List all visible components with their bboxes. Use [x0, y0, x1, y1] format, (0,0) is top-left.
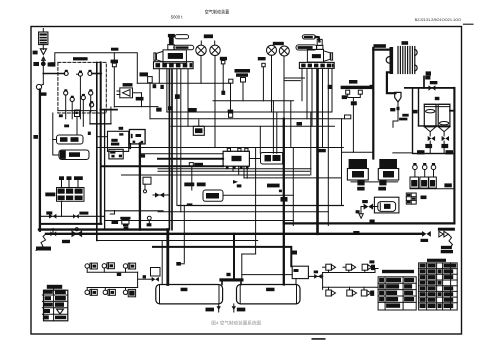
brake cylinder row2 unit2 [103, 289, 115, 295]
isolating valve D2 on main [62, 228, 82, 244]
label on trunk drop [281, 197, 288, 202]
wire y178.2 from BV [246, 169, 248, 178]
distributing valve row B unit1 [326, 287, 336, 296]
wire trunk to radiator (heavy) [373, 48, 389, 50]
drain zigzag to bleed [36, 234, 51, 251]
instrument box I3 [429, 177, 437, 188]
CP1 downcomer 2 [166, 69, 168, 112]
capsule feed drop x276.8 [276, 112, 278, 153]
CP2 downcomer 1 [301, 69, 303, 101]
labels under dryer cabinet [417, 150, 425, 154]
collector wire y153.8 [140, 153, 223, 155]
wire y168.7 [158, 168, 311, 170]
label above fan gauges [201, 34, 214, 44]
drop wire x191.75 [191, 166, 193, 190]
collector wire y126.25 [171, 125, 335, 127]
drain tag on right pipe [424, 71, 431, 88]
CP2 downcomer 6 [331, 69, 333, 112]
distributing valve row B unit2 [347, 287, 357, 296]
label tag on left pipe [33, 135, 38, 139]
cock on top bus left drop [50, 62, 55, 66]
pressure switch right of CP1 [220, 57, 227, 95]
junction box on y175 [143, 177, 151, 184]
stacks foot wire [351, 181, 398, 183]
equalizing capsule right of BV [261, 153, 285, 165]
dryer tower 2 [438, 104, 450, 153]
unloader valve assembly with horn [117, 83, 144, 107]
distributing valve row B unit3 [361, 287, 374, 296]
dryer tower 1 [424, 104, 436, 153]
gauge cock P1 [64, 70, 68, 76]
terminal table left [57, 188, 85, 202]
distributing valve row A unit3 [362, 260, 375, 270]
downcomer tag d [168, 106, 171, 110]
main reservoir R2 [237, 285, 301, 304]
gauge cock P6 [81, 94, 85, 126]
row1 drops [87, 268, 125, 272]
main reservoir R1 [156, 285, 223, 304]
small tag on outlet wire [279, 190, 282, 193]
tag left of bracket [226, 273, 230, 276]
relay valve box above tank2 [292, 266, 308, 284]
vent nozzle [356, 207, 375, 223]
radiator outlet elbow [387, 72, 396, 93]
bowtie valve on y216.3 left [46, 211, 56, 218]
end valve right on main [421, 231, 431, 242]
CP1 downcomer 5 [187, 69, 189, 126]
fan gauge FG4 [279, 46, 289, 119]
gauge trio G1 [413, 163, 418, 177]
brake cylinder row1 unit2 [102, 263, 114, 269]
bowtie valve on y216.3 right [73, 212, 88, 219]
trunk pipe B [100, 62, 102, 224]
gauge cock P4 [64, 89, 68, 119]
oil separator funnel [390, 92, 408, 127]
compressor CP2 [296, 35, 334, 69]
stack feed wire [342, 151, 374, 153]
mini terminal table [406, 193, 416, 204]
svg-text:5000 t: 5000 t [171, 15, 183, 20]
data table left [378, 270, 416, 310]
wire cabinet bottom extension [393, 152, 412, 154]
svg-text:BZJ2131.2/5O1OO21.1OO: BZJ2131.2/5O1OO21.1OO [415, 18, 462, 22]
wire y240.5 [97, 240, 258, 242]
drawing frame border [31, 27, 462, 335]
fan gauge FG1 [196, 45, 206, 83]
row1 manifold wire [87, 271, 137, 273]
brake valve block BV [223, 148, 249, 169]
governor between compressors [235, 69, 251, 101]
heavy branch y246.9 [153, 247, 291, 266]
gauge cock P5 [70, 96, 74, 119]
pressure switch hanging at mid bus [111, 53, 118, 107]
wire to mufflers [53, 113, 59, 155]
legend table [42, 285, 67, 321]
label above outlet wire [267, 184, 280, 188]
pressure switch left of CP2 [258, 57, 266, 101]
muffler capsule 1 [57, 135, 84, 144]
instrument box I2 [420, 177, 429, 188]
panel inlet wire left [43, 73, 64, 75]
downcomer tag b [160, 85, 163, 89]
mid vertical x343 feeder [341, 119, 343, 205]
label above FG3/FG4 [273, 42, 284, 45]
downcomer tag c [175, 94, 180, 99]
right trunk pipe (heavy) [372, 48, 374, 159]
CP2 downcomer 5 [327, 69, 329, 225]
bowtie after relay box [308, 274, 322, 279]
row feed riser [322, 273, 324, 290]
brake cylinder row2 unit3 [123, 289, 135, 296]
dryer internal pipe [413, 88, 449, 126]
flow arrow [233, 180, 238, 184]
MB distributor box [108, 127, 129, 159]
CP1 downcomer 4 [180, 69, 182, 212]
sensor table drop wire [61, 201, 63, 216]
brake cylinder row1 unit3 [123, 263, 135, 269]
solenoid stack EPB [347, 159, 368, 191]
label left of table [45, 193, 55, 197]
CP1 discharge trunk 2 (heavy) [171, 69, 173, 229]
governor assembly above heavy lines [105, 110, 163, 230]
feed cock wire y216.3 [40, 215, 105, 217]
HB box [129, 130, 145, 158]
mid vertical x290.75 [290, 101, 292, 148]
wire into MB box [97, 136, 108, 138]
gauge trio G2 [422, 163, 427, 177]
collector wire y112 [167, 111, 332, 113]
angle cock D1 on main [50, 229, 56, 237]
control reservoir cylinder [203, 190, 223, 201]
label under flow arrow [237, 184, 242, 187]
air dryer cabinet [413, 88, 455, 154]
tag box on y166 pipe [189, 163, 203, 167]
gauge cock P3 [88, 70, 92, 76]
downcomer tag e [328, 85, 332, 89]
sensor stems [62, 180, 79, 188]
label on right trunk top [374, 44, 386, 48]
governor branch (heavy) [100, 109, 117, 111]
small box at row end [151, 268, 161, 277]
row2 risers [87, 288, 125, 291]
heavy brake pipe into BV [158, 158, 223, 160]
label at branch corner [292, 251, 298, 255]
tick on right trunk [370, 85, 373, 88]
auxiliary reservoir box lower right [374, 197, 399, 213]
heavy supply drop to tank bracket [233, 234, 235, 279]
distribution wire y220.5 [105, 220, 294, 222]
wire y175 [122, 174, 310, 176]
main left supply pipe (heavy) [39, 90, 41, 231]
downcomer tag a [153, 84, 157, 88]
fan gauge FG3 [267, 45, 277, 112]
tank mounting bracket [219, 278, 243, 284]
CP1 downcomer 1 [158, 69, 160, 83]
relay box inlet wire [242, 274, 292, 276]
relay component at x150 [140, 72, 153, 118]
instrument box I1 [410, 177, 419, 188]
control unit box (center) [189, 108, 205, 135]
dashed gauge panel box 1-7 [58, 62, 106, 113]
hose coupling right [438, 228, 455, 250]
heavy feed pipe y166.2 [101, 165, 223, 167]
radiator coil [386, 41, 417, 74]
bundle stub b [284, 80, 300, 82]
fan gauge FG2 [210, 45, 220, 147]
bundle stub a [284, 77, 305, 79]
distributing valve row A unit2 [343, 264, 356, 270]
panel bottom wire [58, 110, 97, 112]
top bus wire [55, 53, 138, 83]
tower top manifold [424, 104, 454, 110]
gauge cock P8 [90, 101, 94, 107]
capsule feed drop x260.3 [259, 126, 261, 153]
muffler capsule 2 [59, 150, 89, 160]
air filter F1 [39, 29, 48, 45]
node box at end of y118.75 [345, 115, 351, 119]
label on y126 wire [297, 122, 303, 126]
CP2 discharge trunk (heavy) [316, 69, 319, 234]
bowtie valve on dryer feed [429, 81, 438, 91]
reservoir outlet wire y195.3 [223, 194, 293, 196]
header wire y83 [137, 82, 230, 84]
unloader outlet wire [114, 106, 158, 108]
gauge cock P7 [89, 89, 93, 112]
trunk pipe A (double) [96, 62, 98, 240]
solenoid stack P4B [378, 159, 398, 191]
row B collector wire [323, 286, 379, 288]
wire y171.3 [158, 170, 310, 172]
brake cylinder row1 unit1 [85, 263, 97, 269]
cutout cock bowtie at left [153, 193, 169, 198]
drain valve under R2 [232, 304, 246, 312]
gauge row: label, cock G1, label [33, 59, 53, 85]
label above feed bowtie [314, 271, 318, 274]
drain valve under R1 [206, 304, 221, 312]
row2 manifold wire [87, 287, 137, 289]
heavy trunk drop to tank2 [283, 119, 285, 285]
heavy brake pipe upper (y223.4) [284, 222, 455, 224]
labels above brake cylinder [184, 183, 194, 187]
distribution wire y211.75 [158, 211, 328, 213]
BV to capsule wire [249, 158, 260, 160]
BV pin drops [227, 166, 244, 178]
gauge cock P2 [77, 71, 83, 119]
label on trunk x316 [317, 149, 326, 152]
distribution wire y205.5 [178, 205, 343, 207]
compressor CP1 [154, 34, 194, 69]
CP1 downcomer 3 [176, 69, 178, 205]
heavy drop to reservoir 1 [166, 230, 169, 285]
mid drop wire x255.6 [255, 148, 257, 255]
small box under dashed panel [59, 110, 80, 134]
label left of V1 [33, 51, 38, 55]
CP1 discharge trunk (heavy) [168, 69, 170, 229]
label IC [117, 273, 121, 276]
heavy brake pipe main y233.8 [46, 233, 422, 235]
gauge trio G3 [431, 163, 436, 177]
check valve to auxiliary reservoir [361, 200, 378, 210]
page number dash [312, 338, 326, 340]
CP2 downcomer 4 [322, 69, 324, 147]
wire y177.9 [244, 177, 342, 179]
right main trunk (heavy) [453, 88, 455, 224]
branch wire x241.75 [242, 254, 256, 278]
top right dash mark [464, 23, 474, 25]
row A collector wire [323, 269, 379, 273]
check valve C1 (circle) [36, 84, 46, 96]
collector wire y147.5 [97, 147, 343, 149]
heavy feeder y223.9 left [40, 223, 101, 225]
instrument base wire [410, 188, 454, 190]
sensor labels row [59, 176, 83, 180]
capsule feed drop x273.4 [272, 101, 274, 154]
dryer feed pipe (heavy-ish) [405, 87, 455, 89]
distributing valve row A unit1 [323, 264, 336, 270]
drop x293.25 [292, 148, 294, 226]
drop from y83 [230, 83, 232, 112]
dark dash above right table [441, 250, 453, 253]
CP2 downcomer 3 [311, 69, 313, 126]
data table right [419, 259, 458, 310]
drain wire left of MB [88, 107, 111, 135]
mid vertical x310.75 [310, 112, 312, 175]
label on base wire [444, 183, 451, 187]
panel label 1-7 [73, 57, 88, 60]
brake cylinder row2 unit1 [85, 289, 97, 295]
svg-text:图4 空气制动装置系统图: 图4 空气制动装置系统图 [211, 319, 261, 326]
label on main near trunk [353, 231, 359, 234]
reducing valve V1 (triangle) [40, 45, 46, 61]
heavy main y229.6 left [39, 228, 168, 230]
HB outlet heavy pipe [139, 143, 141, 229]
branch to reservoir area [138, 275, 159, 281]
manifold link [137, 272, 139, 287]
CP2 downcomer 2 [306, 69, 308, 119]
collector wire y118.75 [150, 118, 345, 120]
svg-text:空气制动装置: 空气制动装置 [205, 9, 230, 16]
label above top bus [111, 48, 118, 51]
panel outlet wire right [92, 73, 101, 75]
header wire y100.8 [213, 100, 294, 102]
BV pin risers [229, 147, 240, 150]
wire muffler1 stub [53, 139, 57, 141]
unloader pilot cluster under CP2 [341, 80, 373, 152]
plugged port stub [176, 203, 192, 265]
tag right of mini table [421, 196, 427, 200]
